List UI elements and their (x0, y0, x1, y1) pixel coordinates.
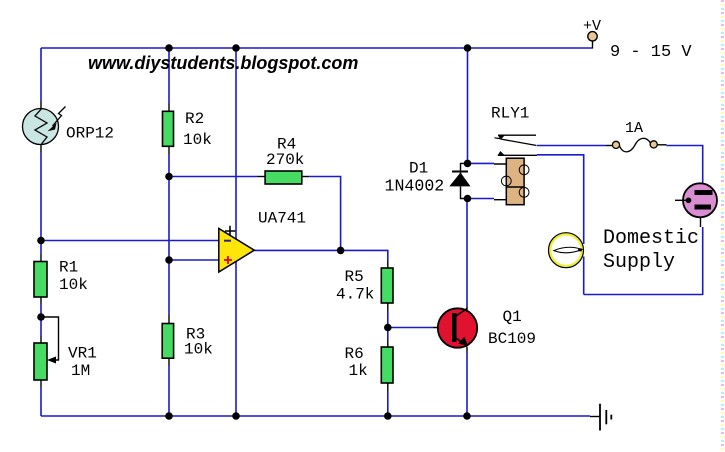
svg-text:RLY1: RLY1 (491, 105, 529, 123)
svg-text:1k: 1k (349, 362, 368, 380)
node D1 bottom junction (464, 195, 472, 203)
potentiometer VR1 (34, 317, 59, 380)
wire top rail to R2 (168, 48, 170, 112)
svg-text:D1: D1 (409, 160, 428, 178)
svg-text:9 - 15 V: 9 - 15 V (610, 43, 692, 62)
wire R3 to bottom rail (168, 358, 170, 416)
wire R5 to R6 (387, 303, 389, 347)
node non-inverting input junction (165, 256, 173, 264)
wire LDR to R1 (40, 144, 42, 262)
wire top rail (41, 47, 593, 49)
node A LDR/R1 junction (37, 237, 45, 245)
svg-text:Supply: Supply (603, 251, 675, 274)
node D1 top junction (464, 160, 472, 168)
svg-text:ORP12: ORP12 (66, 125, 114, 143)
svg-text:Domestic: Domestic (603, 227, 699, 250)
svg-text:VR1: VR1 (68, 345, 97, 363)
fuse 1A (612, 138, 657, 152)
node bottom rail emitter (463, 412, 471, 420)
wire emitter of Q1 to bottom rail (466, 347, 468, 417)
wire R1 to VR1 to bottom (40, 297, 42, 416)
svg-text:1A: 1A (625, 120, 643, 137)
wire base of Q1 (388, 327, 453, 329)
node bottom rail R6 (384, 412, 392, 420)
svg-text:10k: 10k (184, 341, 213, 359)
wire relay top lead (468, 162, 525, 165)
wire switch to fuse (537, 145, 613, 147)
node R5/R6 base junction (384, 324, 392, 332)
wire op-amp supply vertical (235, 48, 237, 416)
ground (590, 404, 611, 431)
relay RLY1 contacts (494, 135, 537, 155)
wire relay bottom lead (468, 199, 507, 200)
wire loop bottom (584, 294, 703, 296)
node R1/VR1 wiper junction (37, 313, 45, 321)
resistor R4 (265, 171, 302, 184)
wire socket to loop bottom (701, 217, 703, 295)
wire top rail to relay branch (467, 48, 469, 163)
wire hysteresis left (node B to R4) (169, 176, 265, 178)
wire bottom rail (41, 415, 590, 417)
svg-text:1M: 1M (71, 362, 90, 380)
svg-text:UA741: UA741 (258, 210, 306, 228)
wire R2 to R3 (168, 146, 170, 323)
wire R4 to output (302, 177, 341, 251)
svg-text:R2: R2 (185, 110, 204, 128)
svg-text:Q1: Q1 (503, 308, 522, 326)
svg-text:R6: R6 (345, 345, 364, 363)
wire left rail upper (40, 48, 42, 109)
+V terminal (588, 32, 597, 49)
wire non-inverting input (169, 259, 219, 261)
svg-text:R5: R5 (345, 268, 364, 286)
wire collector of Q1 (466, 199, 468, 311)
svg-text:10k: 10k (59, 276, 88, 294)
LDR ORP12 (23, 107, 66, 145)
node top rail relay branch (464, 44, 472, 52)
transistor Q1 (438, 308, 477, 347)
svg-text:10k: 10k (183, 131, 212, 149)
resistor R5 (381, 268, 393, 303)
resistor R3 (162, 324, 173, 359)
node B R2/R4 junction (165, 173, 173, 181)
lamp (549, 233, 584, 268)
wire switch to lamp (537, 155, 584, 295)
node bottom rail supply (232, 412, 240, 420)
wire op-amp output to R5 (254, 250, 387, 268)
resistor R2 (163, 111, 174, 146)
resistor R6 (381, 347, 393, 383)
node output/R4 junction (337, 247, 345, 255)
svg-text:BC109: BC109 (488, 330, 536, 348)
node top rail supply branch (232, 44, 240, 52)
svg-text:+V: +V (583, 18, 601, 35)
node top rail R2 branch (165, 44, 173, 52)
svg-text:4.7k: 4.7k (336, 286, 374, 304)
wire R6 to bottom rail (387, 383, 389, 416)
socket Domestic Supply (675, 183, 717, 217)
wire inverting input (41, 240, 219, 242)
resistor R1 (34, 262, 47, 298)
svg-text:1N4002: 1N4002 (385, 177, 445, 196)
wire fuse to socket (657, 145, 702, 184)
op-amp U1 UA741 (219, 226, 255, 272)
relay RLY1 coil (501, 158, 529, 205)
svg-text:R1: R1 (59, 259, 78, 277)
node bottom rail R3 (165, 412, 173, 420)
svg-text:270k: 270k (266, 151, 304, 169)
diode D1 (449, 163, 470, 198)
svg-text:www.diystudents.blogspot.com: www.diystudents.blogspot.com (88, 53, 358, 73)
